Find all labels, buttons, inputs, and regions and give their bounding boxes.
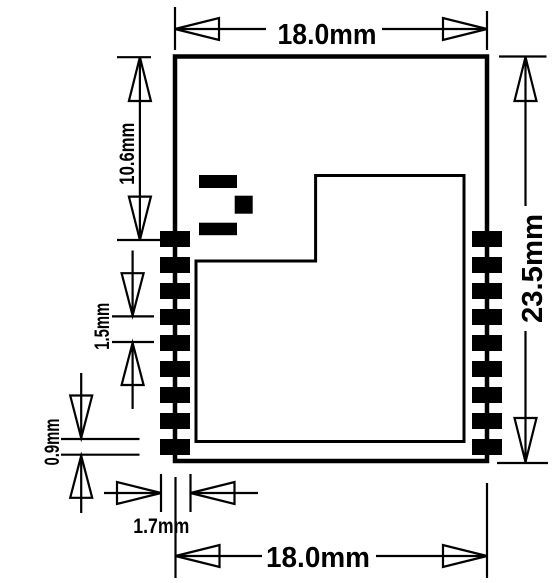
10.6mm extension line bottom: [117, 239, 160, 241]
right pad 8: [472, 413, 502, 429]
top dimension line left segment: [175, 28, 266, 30]
bottom dimension extension line left: [174, 477, 176, 578]
top dimension arrowhead right: [443, 18, 487, 40]
top dimension extension line left: [174, 7, 176, 50]
1.5mm extension line top: [112, 315, 154, 317]
0.9mm extension line bottom: [61, 454, 140, 456]
svg-text:10.6mm: 10.6mm: [116, 123, 139, 185]
0.9mm extension line top: [61, 438, 140, 440]
bottom dimension line right segment: [376, 555, 487, 557]
1.7mm extension line left: [160, 474, 162, 512]
left pad 5: [160, 335, 190, 351]
left pad 9: [160, 439, 190, 455]
right pad 1: [472, 231, 502, 247]
left pad 3: [160, 283, 190, 299]
1.5mm dimension tail bottom: [132, 343, 134, 409]
right dimension extension line bottom: [497, 462, 548, 464]
left pad 2: [160, 257, 190, 273]
10.6mm arrowhead down: [129, 197, 151, 240]
10.6mm extension line top: [117, 56, 151, 58]
1.7mm arrowhead right: [117, 482, 161, 504]
right dimension line upper segment: [524, 57, 526, 206]
right pad 7: [472, 387, 502, 403]
1.7mm dimension tail left: [104, 492, 161, 494]
0.9mm arrowhead up: [70, 456, 92, 498]
left pad 8: [160, 413, 190, 429]
right dimension arrowhead down: [515, 418, 537, 462]
module outline: [175, 57, 487, 462]
shield can outline: [196, 176, 464, 442]
1.5mm dimension tail top: [132, 251, 134, 316]
right pad 6: [472, 361, 502, 377]
svg-text:18.0mm: 18.0mm: [278, 19, 377, 51]
left pad 1: [160, 231, 190, 247]
antenna square: [235, 196, 253, 214]
1.5mm arrowhead down: [122, 273, 144, 315]
svg-text:23.5mm: 23.5mm: [517, 214, 549, 323]
top dimension line right segment: [382, 28, 487, 30]
antenna bar 1: [199, 175, 237, 188]
left pad 4: [160, 309, 190, 325]
top dimension extension line right: [486, 11, 488, 50]
right dimension line lower segment: [524, 331, 526, 462]
svg-text:1.7mm: 1.7mm: [133, 515, 189, 538]
1.5mm extension line bottom: [112, 341, 154, 343]
bottom dimension arrowhead left: [176, 545, 220, 567]
right pad 3: [472, 283, 502, 299]
left pad 6: [160, 361, 190, 377]
svg-text:1.5mm: 1.5mm: [91, 303, 114, 350]
svg-text:0.9mm: 0.9mm: [41, 419, 64, 466]
1.5mm arrowhead up: [122, 343, 144, 385]
1.7mm dimension tail right: [191, 492, 259, 494]
right pad 5: [472, 335, 502, 351]
right dimension arrowhead up: [515, 57, 537, 101]
bottom dimension line left segment: [176, 555, 263, 557]
right pad 4: [472, 309, 502, 325]
0.9mm arrowhead down: [70, 396, 92, 439]
1.7mm extension line right: [189, 474, 191, 512]
0.9mm dimension tail top: [80, 373, 82, 438]
10.6mm dimension line: [139, 57, 141, 240]
right dimension extension line top: [499, 55, 547, 57]
bottom dimension extension line right: [486, 483, 488, 578]
right pad 2: [472, 257, 502, 273]
left pad 7: [160, 387, 190, 403]
antenna bar 2: [199, 223, 237, 236]
bottom dimension arrowhead right: [443, 545, 487, 567]
svg-text:18.0mm: 18.0mm: [266, 542, 370, 574]
top dimension arrowhead left: [175, 18, 219, 40]
1.7mm arrowhead left: [191, 482, 235, 504]
0.9mm dimension tail bottom: [80, 456, 82, 513]
right pad 9: [472, 439, 502, 455]
10.6mm arrowhead up: [129, 57, 151, 101]
